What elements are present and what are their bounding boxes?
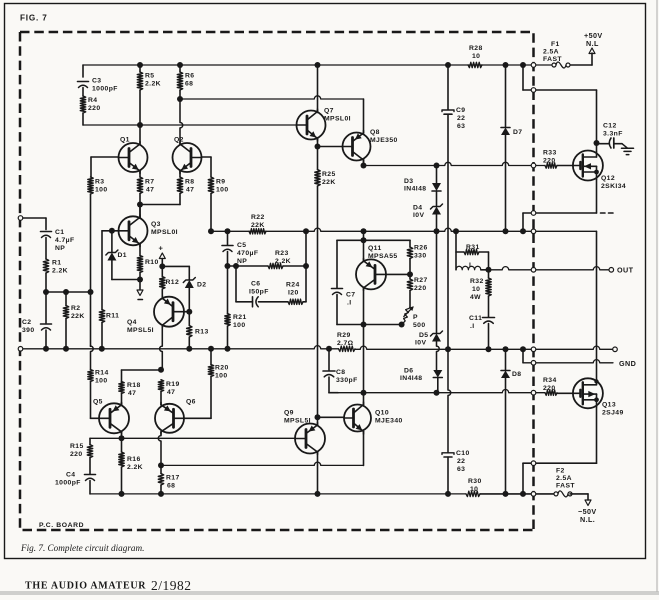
node pot wiper box bottom: [399, 322, 405, 328]
wire OUT rail to sources drop: [596, 231, 598, 381]
svg-text:100: 100: [95, 378, 108, 385]
wire C4 lower: [89, 481, 91, 494]
label C8: [336, 369, 358, 384]
wire R32 upper: [488, 270, 490, 278]
label Q9: [284, 410, 311, 425]
svg-text:R29: R29: [337, 332, 351, 339]
node ground rail D8: [503, 346, 509, 352]
capacitor C3: [78, 82, 89, 88]
svg-text:I0V: I0V: [413, 212, 424, 219]
label Q10: [375, 410, 403, 425]
svg-text:10: 10: [470, 486, 478, 493]
svg-text:R20: R20: [215, 365, 229, 372]
wire R32 to C11: [488, 296, 490, 317]
node mid rail C1R1: [43, 289, 49, 295]
P.C. BOARD label: [39, 522, 84, 529]
wire ground rail right: [355, 346, 613, 349]
node ground rail Zobel: [486, 346, 492, 352]
svg-text:P: P: [413, 314, 418, 321]
wire C8 lower: [329, 377, 338, 393]
svg-text:R6: R6: [185, 73, 195, 80]
wire R15 to C4: [89, 458, 91, 474]
node OUT rail pcb crossing: [531, 229, 536, 234]
wire R16 lower: [121, 467, 123, 494]
svg-text:R8: R8: [185, 179, 195, 186]
svg-text:R4: R4: [88, 97, 98, 104]
wire Q13 source down: [596, 407, 598, 463]
wire ground rail left: [23, 346, 339, 349]
wire R12 top lead: [161, 266, 163, 276]
svg-text:C1: C1: [55, 229, 65, 236]
svg-text:NP: NP: [237, 258, 247, 265]
label R10: [145, 259, 159, 266]
node top rail pcb boundary: [531, 63, 536, 68]
resistor R15: [87, 445, 92, 458]
node OUT rail D4: [434, 228, 440, 234]
resistor R20: [208, 365, 213, 377]
transistor Q5: [99, 402, 129, 434]
svg-text:2.2K: 2.2K: [145, 81, 161, 88]
wire source jog left: [523, 212, 597, 214]
svg-text:Q10: Q10: [375, 410, 389, 417]
wire Q2 base: [202, 157, 212, 177]
wire Q1 base to R3: [90, 157, 92, 177]
resistor R9: [208, 177, 213, 194]
wire negative rail: [90, 493, 466, 495]
svg-text:R34: R34: [543, 377, 557, 384]
label R7: [145, 179, 155, 194]
wire Q9 collector down: [317, 452, 319, 494]
svg-text:220: 220: [543, 158, 556, 165]
label F2: [556, 468, 575, 490]
label R31: [466, 244, 480, 251]
wire R2 lower: [65, 319, 67, 349]
wire Q10 collector up: [363, 393, 365, 406]
mosfet Q12: [573, 151, 603, 181]
svg-text:R28: R28: [469, 45, 483, 52]
node GND pcb crossing: [531, 361, 536, 366]
wire C9 lower: [447, 115, 449, 350]
wire R31 right: [479, 252, 489, 270]
wire Q12 branch down: [522, 65, 524, 90]
node R26 R27 base: [407, 271, 413, 277]
transistor Q3: [119, 215, 148, 247]
wire C6 lead: [236, 301, 253, 303]
wire R8 to tie: [179, 194, 181, 205]
label Q7: [324, 108, 351, 123]
wire source return down: [522, 463, 524, 494]
svg-text:MPSL0I: MPSL0I: [151, 229, 178, 236]
node R23 right: [303, 263, 309, 269]
wire OUT line: [489, 267, 612, 270]
wire D8 upper: [505, 349, 507, 370]
label Q13: [602, 402, 624, 417]
svg-text:C7: C7: [346, 292, 356, 299]
wire top rail fuse to corner: [568, 64, 592, 66]
wire Q6 collector jog: [158, 432, 161, 465]
svg-text:R11: R11: [106, 313, 119, 320]
wire C7 lower: [336, 295, 338, 325]
label R32: [470, 278, 484, 301]
node top rail R6: [177, 62, 183, 68]
wire C8 branch: [328, 349, 330, 371]
svg-text:R24: R24: [286, 282, 300, 289]
label Q5: [93, 399, 103, 406]
node Q4 collector R19: [158, 367, 164, 373]
svg-text:3.3nF: 3.3nF: [603, 131, 623, 138]
label D5: [415, 332, 429, 347]
wire y99 corner down: [363, 99, 365, 133]
terminal -50V arrow: [585, 500, 591, 506]
node OUT pcb crossing: [531, 268, 536, 273]
node top rail Q7 collector: [315, 62, 321, 68]
wire Q1 emitter: [139, 170, 141, 177]
svg-text:100: 100: [215, 373, 228, 380]
label R20: [215, 365, 229, 380]
resistor R26: [407, 247, 412, 259]
node lower gate D6: [434, 390, 440, 396]
svg-text:R32: R32: [470, 278, 484, 285]
node Q8 collector: [361, 163, 367, 169]
diode D7: [501, 128, 510, 136]
svg-text:2SJ49: 2SJ49: [602, 410, 624, 417]
wire D3 upper: [436, 166, 438, 184]
svg-text:R27: R27: [414, 277, 428, 284]
label R2: [71, 305, 85, 320]
footer magazine title: [25, 581, 146, 592]
wire C7 upper: [336, 240, 338, 288]
wire C11 lower: [488, 324, 490, 350]
label D8: [512, 371, 522, 378]
svg-text:Q1: Q1: [120, 137, 130, 144]
svg-text:NP: NP: [55, 245, 65, 252]
wire Q8 collector down: [363, 159, 365, 166]
resistor R8: [177, 177, 182, 194]
wire R23 line right: [283, 265, 306, 267]
svg-text:2.7Ω: 2.7Ω: [337, 340, 354, 347]
label C9: [456, 107, 466, 130]
resistor R22: [249, 229, 266, 234]
node R5 y125: [137, 122, 143, 128]
svg-text:N.L: N.L: [586, 39, 599, 48]
label R28: [469, 45, 483, 60]
capacitor C10: [442, 453, 454, 457]
svg-text:500: 500: [413, 322, 426, 329]
svg-text:Q9: Q9: [284, 410, 294, 417]
wire R13 to ground rail: [188, 337, 190, 349]
wire R2 upper: [65, 292, 67, 306]
label R29: [337, 332, 354, 347]
svg-text:L: L: [469, 262, 474, 269]
node C5 R23: [225, 263, 231, 269]
node drain feed pcb crossing: [531, 88, 536, 93]
label Q3: [151, 221, 178, 236]
svg-text:Q5: Q5: [93, 399, 103, 406]
node Q6 collector R17: [158, 462, 164, 468]
svg-text:C8: C8: [336, 369, 346, 376]
label D1: [118, 252, 128, 259]
wire R27 to pot: [409, 291, 411, 308]
label R34: [543, 377, 557, 392]
resistor R13: [187, 326, 192, 338]
svg-text:MPSA55: MPSA55: [368, 253, 398, 260]
svg-text:R18: R18: [127, 382, 141, 389]
wire Q9 base line: [90, 437, 296, 439]
right page edge line: [656, 0, 658, 592]
svg-text:220: 220: [70, 451, 83, 458]
svg-text:R16: R16: [127, 456, 141, 463]
node R10 D1: [137, 277, 143, 283]
resistor R14: [88, 370, 93, 382]
svg-text:C12: C12: [603, 123, 617, 130]
svg-text:P.C. BOARD: P.C. BOARD: [39, 522, 84, 529]
terminal bias plus arrow: [159, 253, 165, 259]
wire Q7e to R25: [317, 147, 319, 170]
node neg rail C10: [445, 491, 451, 497]
transistor Q8: [343, 131, 371, 163]
svg-text:Q7: Q7: [324, 108, 334, 115]
diode D1 zener: [106, 250, 118, 261]
wire D3 D4: [436, 191, 438, 207]
node output L R32: [486, 267, 492, 273]
svg-text:Q13: Q13: [602, 402, 616, 409]
transistor Q4: [154, 296, 184, 328]
node OUT rail R9R22: [208, 228, 214, 234]
resistor R2: [63, 306, 68, 319]
wire C3 to R4: [82, 88, 84, 97]
node OUT rail R23 branch: [303, 228, 309, 234]
wire Q10 base lead: [318, 416, 345, 418]
node gate line D3: [434, 163, 440, 169]
node OUT rail D7: [503, 228, 509, 234]
wire R21 to ground rail: [227, 326, 229, 349]
svg-text:4.7µF: 4.7µF: [55, 237, 75, 244]
svg-text:IN4I48: IN4I48: [400, 375, 422, 382]
label D7: [513, 129, 523, 136]
svg-text:D8: D8: [512, 371, 522, 378]
svg-text:68: 68: [167, 483, 175, 490]
transistor Q1: [119, 142, 148, 174]
svg-text:2.2K: 2.2K: [52, 268, 68, 275]
node ground rail R21: [225, 346, 231, 352]
label R3: [95, 179, 108, 194]
wire Q11 collector down: [363, 289, 365, 325]
label R11: [106, 313, 119, 320]
wire Q4 collector: [160, 327, 163, 370]
svg-text:4W: 4W: [470, 294, 481, 301]
label R27: [414, 277, 428, 292]
resistor R12: [160, 277, 165, 290]
label Q12: [601, 175, 626, 190]
svg-text:MPSL0I: MPSL0I: [324, 116, 351, 123]
svg-text:R17: R17: [166, 475, 180, 482]
wire Q3 emitter: [139, 244, 141, 256]
transistor Q7: [297, 109, 326, 141]
label D3: [404, 178, 426, 193]
wire R10 lower: [139, 273, 141, 280]
wire +50V top rail: [83, 64, 554, 66]
wire R7-R8 tie: [140, 204, 180, 206]
wire R19 lower: [160, 392, 162, 405]
label C5: [237, 242, 258, 265]
node OUT rail Q12 source: [520, 228, 526, 234]
node Q4 base: [186, 309, 192, 315]
svg-text:R22: R22: [251, 214, 265, 221]
resistor R23: [268, 263, 283, 268]
svg-text:R15: R15: [70, 443, 84, 450]
svg-text:63: 63: [457, 466, 465, 473]
wire C10 stem: [447, 457, 449, 494]
resistor R21: [225, 314, 230, 327]
label D4: [413, 205, 424, 220]
svg-text:22K: 22K: [251, 222, 265, 229]
wire R14 lower: [91, 382, 100, 419]
wire R27 upper: [409, 274, 411, 279]
node OUT rail C5: [225, 228, 231, 234]
label R8: [185, 179, 195, 194]
svg-text:FAST: FAST: [543, 56, 562, 63]
capacitor C5: [222, 246, 233, 252]
wire D8 lower: [505, 378, 507, 494]
wire C6 branch down: [235, 266, 237, 302]
node ground rail R13: [186, 346, 192, 352]
capacitor C6: [253, 297, 259, 307]
svg-text:F1: F1: [551, 41, 560, 48]
svg-text:GND: GND: [619, 359, 636, 368]
wire GND stub: [523, 349, 613, 363]
svg-text:2.5A: 2.5A: [543, 49, 559, 56]
wire F2 to terminal: [570, 494, 588, 500]
resistor R27: [407, 279, 412, 291]
node top rail R5: [137, 62, 143, 68]
stray dashes right of Q12: [601, 212, 614, 214]
svg-text:F2: F2: [556, 468, 565, 475]
label R19: [166, 381, 180, 396]
wire R18 branch: [122, 370, 162, 392]
wire C3 branch top: [82, 65, 84, 77]
capacitor C12: [609, 138, 614, 148]
label C10: [456, 450, 470, 473]
wire R26 lower: [409, 259, 411, 275]
label OUT: [617, 266, 634, 275]
label L: [469, 262, 474, 269]
wire D4 lower: [436, 215, 438, 232]
wire R26 upper: [409, 240, 411, 247]
svg-text:Q4: Q4: [127, 319, 137, 326]
label R30: [468, 478, 482, 493]
transistor Q2: [173, 142, 202, 174]
svg-text:2/1982: 2/1982: [151, 578, 192, 593]
mosfet Q13: [573, 378, 603, 408]
wire y125 to Q7 base: [83, 124, 297, 126]
svg-text:MJE350: MJE350: [370, 137, 398, 144]
wire ground stub: [139, 280, 141, 290]
wire bias box feed: [363, 231, 365, 240]
wire L to node: [481, 269, 489, 271]
wire R21 drop: [227, 266, 229, 314]
label R21: [233, 314, 247, 329]
wire lower gate line: [338, 390, 545, 393]
wire R11 to ground rail: [101, 323, 103, 349]
diode D2 zener: [183, 278, 195, 289]
resistor R17: [158, 474, 163, 486]
chassis ground symbol: [622, 144, 634, 155]
wire R5 to Q1: [139, 90, 141, 143]
label Q8: [370, 129, 398, 144]
node Q9 collector neg rail: [315, 491, 321, 497]
wire Q4 base lead: [184, 311, 190, 313]
label C4: [55, 472, 81, 487]
svg-text:100: 100: [216, 187, 229, 194]
wire R34 to Q13 gate: [557, 392, 573, 394]
node lower gate Q10: [361, 390, 367, 396]
wire Q11 emitter up: [363, 240, 365, 260]
capacitor C7: [332, 289, 343, 295]
resistor R16: [119, 452, 124, 467]
svg-text:2SKI34: 2SKI34: [601, 183, 626, 190]
svg-text:R14: R14: [95, 370, 109, 377]
label R15: [70, 443, 84, 458]
resistor R5: [137, 72, 142, 90]
label R17: [166, 475, 180, 490]
node bias box top emitter: [361, 237, 367, 243]
wire Q2 emitter: [179, 170, 181, 177]
svg-text:R13: R13: [195, 329, 209, 336]
wire C2 lower: [45, 330, 47, 349]
label D2: [197, 282, 207, 289]
svg-text:330: 330: [414, 253, 427, 260]
wire R3 to ground rail: [90, 194, 92, 346]
transistor Q11: [356, 258, 386, 290]
svg-text:47: 47: [128, 390, 136, 397]
wire Q11 base lead: [386, 273, 410, 275]
svg-text:100: 100: [95, 187, 108, 194]
wire Q1 base: [91, 156, 119, 158]
label C2: [22, 319, 35, 334]
wire input lead: [23, 218, 46, 230]
svg-text:C9: C9: [456, 107, 466, 114]
FIG. 7 title: [20, 14, 48, 23]
label -50V N.L.: [578, 507, 597, 524]
node upper gate pcb crossing: [531, 163, 536, 168]
wire node to D2 top: [162, 266, 189, 279]
svg-text:N.L.: N.L.: [580, 515, 595, 524]
label F1: [543, 41, 562, 63]
svg-text:D5: D5: [419, 332, 429, 339]
label R33: [543, 150, 557, 165]
terminal +50V arrow: [589, 48, 595, 54]
wire input mid rail: [46, 291, 91, 293]
node R12 top: [159, 263, 165, 269]
terminal ground rail right: [613, 347, 618, 352]
wire C6 to R24: [259, 301, 289, 303]
label R5: [145, 73, 161, 88]
resistor R34: [545, 390, 557, 395]
svg-text:C3: C3: [92, 78, 102, 85]
label C12: [603, 123, 623, 138]
node neg rail D8: [503, 491, 509, 497]
label P: [413, 314, 426, 329]
svg-text:1000pF: 1000pF: [55, 480, 81, 487]
bottom gray page strip: [0, 591, 659, 595]
resistor R7: [137, 177, 142, 194]
label C11: [469, 315, 482, 330]
wire D7 upper: [505, 65, 507, 127]
node C12 tap: [594, 140, 600, 146]
label R13: [195, 329, 209, 336]
resistor R10: [137, 256, 142, 273]
node Q7 emitter: [315, 144, 321, 150]
